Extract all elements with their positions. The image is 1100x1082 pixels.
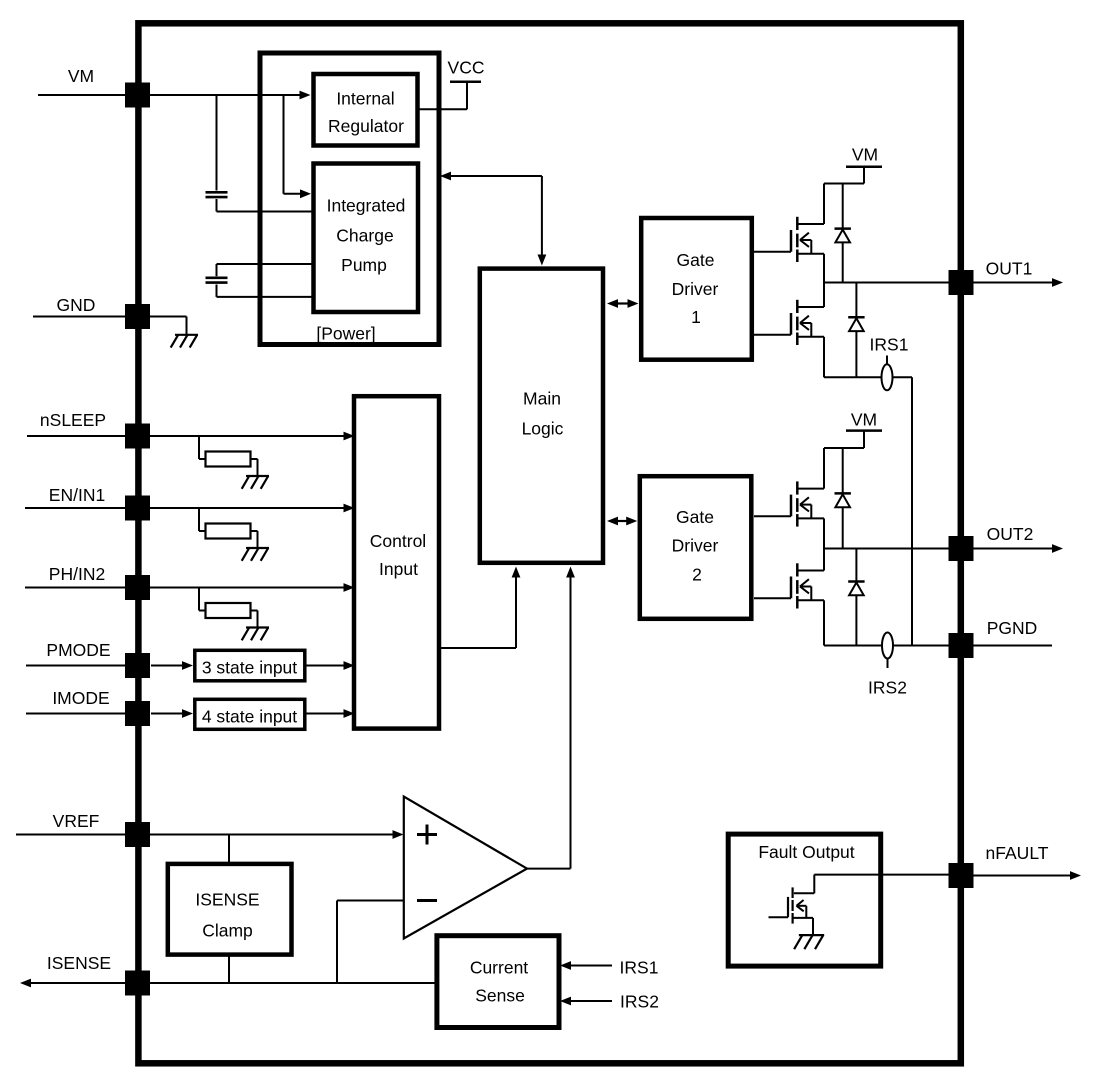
wire VM to Internal Regulator xyxy=(38,91,311,100)
wire charge pump to cap2 top xyxy=(217,264,314,276)
svg-text:Pump: Pump xyxy=(341,255,387,275)
wire PGND external xyxy=(974,645,1053,647)
svg-text:nFAULT: nFAULT xyxy=(986,843,1049,863)
svg-text:Main: Main xyxy=(523,389,561,409)
wire Q4 source to IRS2 xyxy=(824,600,882,645)
node IRS2 xyxy=(868,633,907,698)
wire OUT1 external xyxy=(974,278,1064,287)
svg-text:IRS1: IRS1 xyxy=(620,958,659,978)
svg-text:IRS1: IRS1 xyxy=(870,335,909,355)
label nSLEEP xyxy=(40,410,106,430)
svg-text:1: 1 xyxy=(691,307,701,327)
svg-text:GND: GND xyxy=(57,295,96,315)
svg-text:VCC: VCC xyxy=(448,58,485,78)
ground R3 xyxy=(242,628,269,641)
svg-text:Input: Input xyxy=(379,559,418,579)
wire 3 state input to Control Input xyxy=(307,661,355,670)
pin EN/IN1 xyxy=(125,496,150,521)
svg-text:nSLEEP: nSLEEP xyxy=(40,410,106,430)
block 4 state input xyxy=(195,699,305,729)
net VM half-bridge 2 xyxy=(824,410,882,449)
node IRS1 xyxy=(870,335,909,391)
svg-text:VM: VM xyxy=(851,410,877,430)
svg-text:ISENSE: ISENSE xyxy=(195,890,259,910)
svg-text:Regulator: Regulator xyxy=(328,116,404,136)
svg-text:IRS2: IRS2 xyxy=(868,678,907,698)
wire Q3 source to OUT2 xyxy=(823,518,825,548)
pin nFAULT xyxy=(949,863,974,888)
block Integrated Charge Pump U2 xyxy=(314,164,419,313)
block Control Input U4 xyxy=(354,396,439,728)
label OUT1 xyxy=(986,259,1033,279)
block Main Logic U3 xyxy=(480,269,603,563)
ground R1 xyxy=(242,476,269,489)
wire nFAULT xyxy=(814,874,948,876)
wire Q2 source to IRS1 xyxy=(824,337,882,378)
wire VREF to comparator xyxy=(16,830,404,839)
pin OUT2 xyxy=(949,536,974,561)
pin PH/IN2 xyxy=(125,575,150,600)
svg-text:Fault Output: Fault Output xyxy=(758,842,854,862)
transistor Q5 xyxy=(769,875,815,936)
label PH/IN2 xyxy=(49,564,105,584)
wire VM to charge pump xyxy=(284,95,312,198)
svg-text:ISENSE: ISENSE xyxy=(47,953,111,973)
svg-text:Internal: Internal xyxy=(336,89,394,109)
block 3 state input xyxy=(195,650,305,681)
pin IMODE xyxy=(125,701,150,726)
pin OUT1 xyxy=(949,270,974,295)
svg-text:3 state input: 3 state input xyxy=(202,658,297,678)
wire comparator minus input xyxy=(337,901,404,984)
label VM xyxy=(68,66,94,86)
wire IRS1 to PGND rail xyxy=(893,377,913,645)
label VREF xyxy=(53,811,100,831)
block Current Sense xyxy=(437,936,559,1028)
wire VM to Q1 drain xyxy=(823,184,825,225)
wire Main Logic / Gate Driver 2 bus xyxy=(607,517,637,526)
svg-text:OUT1: OUT1 xyxy=(986,259,1033,279)
transistor Q3 xyxy=(754,481,824,526)
svg-text:Gate: Gate xyxy=(677,250,715,270)
wire OUT2 external xyxy=(974,544,1064,553)
svg-text:PMODE: PMODE xyxy=(46,640,110,660)
wire ISENSE xyxy=(20,979,437,988)
wire OUT2 node xyxy=(824,548,949,550)
block Fault Output xyxy=(728,834,881,966)
svg-text:[Power]: [Power] xyxy=(316,324,375,344)
block [Power] xyxy=(260,53,439,345)
block Gate Driver 2 U6 xyxy=(640,476,752,619)
svg-text:4 state input: 4 state input xyxy=(202,707,297,727)
pin nSLEEP xyxy=(125,424,150,449)
resistor R3 xyxy=(199,588,258,628)
svg-text:Current: Current xyxy=(470,958,528,978)
svg-text:IRS2: IRS2 xyxy=(620,992,659,1012)
IC boundary xyxy=(138,23,960,1063)
ground GND pin xyxy=(171,335,198,348)
label PMODE xyxy=(46,640,110,660)
svg-text:Driver: Driver xyxy=(672,279,719,299)
wire Control Input to Main Logic xyxy=(439,567,520,649)
svg-text:VREF: VREF xyxy=(53,811,100,831)
block Internal Regulator U1 xyxy=(314,74,418,146)
wire IMODE to 4 state input xyxy=(26,709,193,718)
label GND xyxy=(57,295,96,315)
svg-text:Integrated: Integrated xyxy=(327,196,406,216)
label ISENSE xyxy=(47,953,111,973)
wire PMODE to 3 state input xyxy=(26,661,193,670)
wire nSLEEP xyxy=(27,432,355,441)
resistor R2 xyxy=(199,508,258,548)
svg-text:Logic: Logic xyxy=(522,419,564,439)
svg-text:VM: VM xyxy=(68,66,94,86)
svg-text:EN/IN1: EN/IN1 xyxy=(49,485,105,505)
svg-text:PH/IN2: PH/IN2 xyxy=(49,564,105,584)
label OUT2 xyxy=(987,524,1034,544)
wire OUT1 node xyxy=(824,282,949,284)
resistor R1 xyxy=(199,436,258,476)
pin PMODE xyxy=(125,653,150,678)
pin VREF xyxy=(125,822,150,847)
transistor Q4 xyxy=(754,549,824,609)
svg-text:PGND: PGND xyxy=(987,618,1038,638)
block ISENSE Clamp xyxy=(168,864,292,955)
svg-text:Clamp: Clamp xyxy=(202,921,253,941)
svg-text:Driver: Driver xyxy=(672,536,719,556)
wire 4 state input to Control Input xyxy=(307,709,355,718)
svg-text:2: 2 xyxy=(692,565,702,585)
wire cap2 to charge pump xyxy=(217,285,314,297)
diode D2 xyxy=(848,283,864,378)
pin PGND xyxy=(949,633,974,658)
label IMODE xyxy=(52,688,109,708)
op-amp U7 xyxy=(404,797,527,939)
wire PH/IN2 xyxy=(25,583,355,592)
transistor Q1 xyxy=(754,217,824,262)
svg-text:OUT2: OUT2 xyxy=(987,524,1034,544)
label PGND xyxy=(987,618,1038,638)
svg-text:IMODE: IMODE xyxy=(52,688,109,708)
wire GND xyxy=(33,317,187,335)
block Gate Driver 1 U5 xyxy=(641,218,752,360)
net VM half-bridge 1 xyxy=(824,145,882,184)
ground R2 xyxy=(242,548,269,561)
svg-text:Sense: Sense xyxy=(475,986,525,1006)
wire comparator output to Main Logic xyxy=(527,567,575,869)
wire VREF to ISENSE Clamp xyxy=(228,835,230,863)
svg-text:Charge: Charge xyxy=(336,226,393,246)
diode D1 xyxy=(835,184,851,283)
wire Q1 source to OUT1 xyxy=(823,254,825,283)
wire cap1 top drop xyxy=(216,95,218,191)
wire IRS2 to Current Sense xyxy=(560,992,659,1012)
wire Main Logic / Gate Driver 1 bus xyxy=(607,299,639,308)
svg-text:Control: Control xyxy=(370,531,426,551)
svg-text:Gate: Gate xyxy=(676,507,714,527)
wire cap1 to charge pump xyxy=(217,199,314,212)
net VCC xyxy=(418,58,485,110)
wire VM to Q3 drain xyxy=(823,448,825,489)
svg-text:VM: VM xyxy=(852,145,878,165)
wire EN/IN1 xyxy=(25,504,355,513)
label nFAULT xyxy=(986,843,1049,863)
ground Q5 source xyxy=(794,935,824,949)
wire IRS2 to PGND pin xyxy=(893,645,949,647)
wire nFAULT external xyxy=(974,871,1082,880)
diode D4 xyxy=(848,549,864,646)
wire IRS1 to Current Sense xyxy=(560,958,658,978)
wire ISENSE Clamp to ISENSE xyxy=(228,957,230,984)
wire Main Logic to Power xyxy=(440,172,546,266)
pin ISENSE xyxy=(125,971,150,996)
pin VM xyxy=(125,83,150,108)
pin GND xyxy=(125,304,150,329)
diode D3 xyxy=(835,448,851,549)
capacitor C1 xyxy=(206,192,228,197)
capacitor C2 xyxy=(206,278,228,283)
transistor Q2 xyxy=(754,283,824,346)
label EN/IN1 xyxy=(49,485,105,505)
